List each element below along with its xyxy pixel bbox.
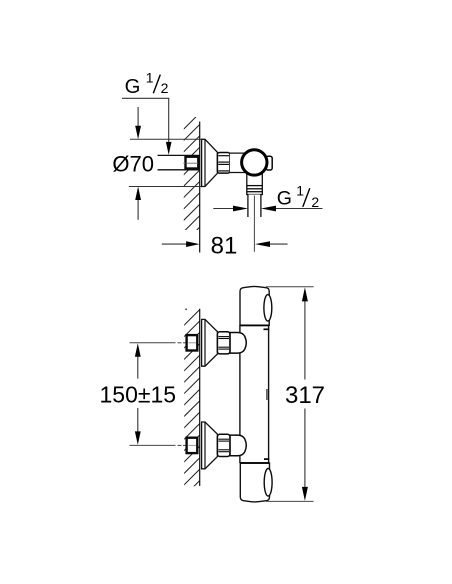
svg-text:150±15: 150±15 (100, 382, 177, 408)
valve body knob circle (top view) (242, 150, 267, 175)
square union fitting behind wall (bottom inlet) (187, 438, 198, 453)
outlet neck below valve (top view) (247, 172, 262, 186)
leader line down to pipe thread (168, 98, 170, 142)
outlet pipe centerline extension (253, 196, 255, 252)
wall face line (bottom view) (199, 309, 201, 486)
G1/2 right dimension line right part (261, 206, 276, 212)
wall face line (top view) (199, 122, 201, 253)
svg-text:81: 81 (211, 232, 238, 259)
thermostat bar tube (240, 325, 269, 463)
stop tab on valve body (top view) (266, 156, 272, 170)
stray hatch dot (185, 308, 187, 310)
leader underline G1/2 top (122, 97, 169, 99)
top cap (thermostat handle) (240, 286, 269, 325)
svg-text:1: 1 (296, 183, 304, 199)
317 extension line top (266, 286, 314, 288)
317 extension line bottom (266, 500, 314, 502)
label G1/2 (right) text (277, 183, 320, 210)
81 dimension line right segment (255, 241, 270, 247)
inlet top: union nut (217, 332, 230, 354)
svg-text:G: G (277, 188, 292, 210)
outlet collar ridges (top view) (247, 186, 262, 195)
label G1/2 (top left) text (125, 69, 169, 98)
81 dimension line left segment (162, 243, 187, 245)
top cap grip oval (264, 295, 272, 322)
dia70 dimension arrow top (137, 107, 139, 127)
svg-text:2: 2 (161, 80, 169, 96)
outlet pipe down (top view) (248, 195, 261, 218)
bottom cap grip oval (264, 469, 272, 497)
svg-text:G: G (125, 76, 141, 98)
extension line top (dia70) (130, 138, 202, 140)
G1/2 right dimension line left part (213, 208, 234, 210)
square union fitting behind wall (top view) (186, 157, 199, 169)
escutcheon flange and cone (top view) (202, 139, 218, 186)
inlet top: body boss with dome (230, 333, 246, 354)
inlet top: escutcheon flange and cone (202, 319, 218, 366)
inlet centerline / extension line (bottom) (130, 444, 186, 446)
groove on tube right edge (266, 389, 268, 400)
union nut (top view) (217, 153, 230, 174)
inlet bottom: escutcheon flange and cone (202, 422, 218, 469)
svg-text:317: 317 (285, 382, 325, 409)
bottom cap joint line (240, 462, 269, 464)
tick below top joint (264, 328, 270, 330)
svg-text:1: 1 (146, 69, 154, 85)
inlet bottom: body boss with dome (230, 435, 246, 456)
svg-text:Ø70: Ø70 (112, 152, 154, 177)
150+-15 dimension line (137, 356, 139, 432)
centerline of pipe (top view) (183, 162, 197, 164)
dia70 dimension arrow bottom (137, 200, 139, 220)
extension line bottom (dia70) (129, 186, 202, 188)
tick above bottom joint (264, 458, 269, 460)
square union fitting behind wall (top inlet) (187, 335, 198, 350)
supply pipe through wall (top view) (158, 155, 200, 169)
317 dimension line (304, 301, 306, 487)
inlet centerline / extension line (top) (130, 342, 186, 344)
inlet bottom: union nut (217, 434, 230, 456)
valve inlet cylinder (top view) (230, 153, 246, 172)
bottom cap (volume handle) (240, 463, 269, 502)
top cap joint line (240, 324, 269, 326)
svg-text:2: 2 (311, 194, 319, 210)
